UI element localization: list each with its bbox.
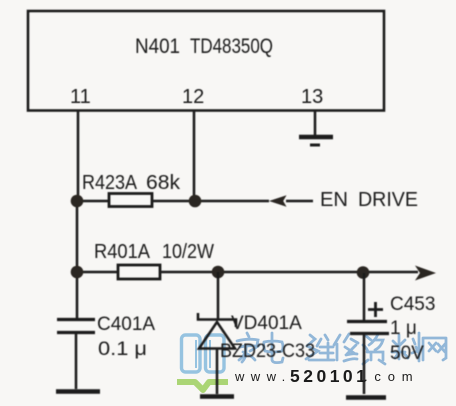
svg-text:13: 13 bbox=[301, 86, 323, 108]
svg-text:0.1 μ: 0.1 μ bbox=[98, 339, 147, 360]
svg-text:DRIVE: DRIVE bbox=[358, 189, 418, 211]
svg-text:R401A: R401A bbox=[94, 241, 151, 263]
svg-text:10/2W: 10/2W bbox=[162, 241, 214, 263]
svg-text:C401A: C401A bbox=[97, 314, 155, 335]
svg-text:11: 11 bbox=[70, 86, 91, 108]
svg-text:N401: N401 bbox=[135, 35, 180, 58]
svg-text:R423A: R423A bbox=[82, 172, 138, 194]
svg-text:520101: 520101 bbox=[290, 366, 369, 386]
svg-text:www.: www. bbox=[234, 369, 292, 384]
svg-text:EN: EN bbox=[320, 189, 348, 211]
svg-text:50V: 50V bbox=[390, 343, 424, 364]
svg-text:12: 12 bbox=[182, 86, 204, 108]
svg-text:.com: .com bbox=[364, 369, 419, 384]
svg-text:C453: C453 bbox=[390, 294, 435, 315]
svg-text:VD401A: VD401A bbox=[231, 313, 302, 334]
svg-text:TD48350Q: TD48350Q bbox=[190, 35, 273, 58]
svg-text:BZD23-C33: BZD23-C33 bbox=[220, 341, 315, 362]
svg-text:68k: 68k bbox=[146, 172, 181, 194]
svg-text:1 μ: 1 μ bbox=[390, 318, 417, 339]
